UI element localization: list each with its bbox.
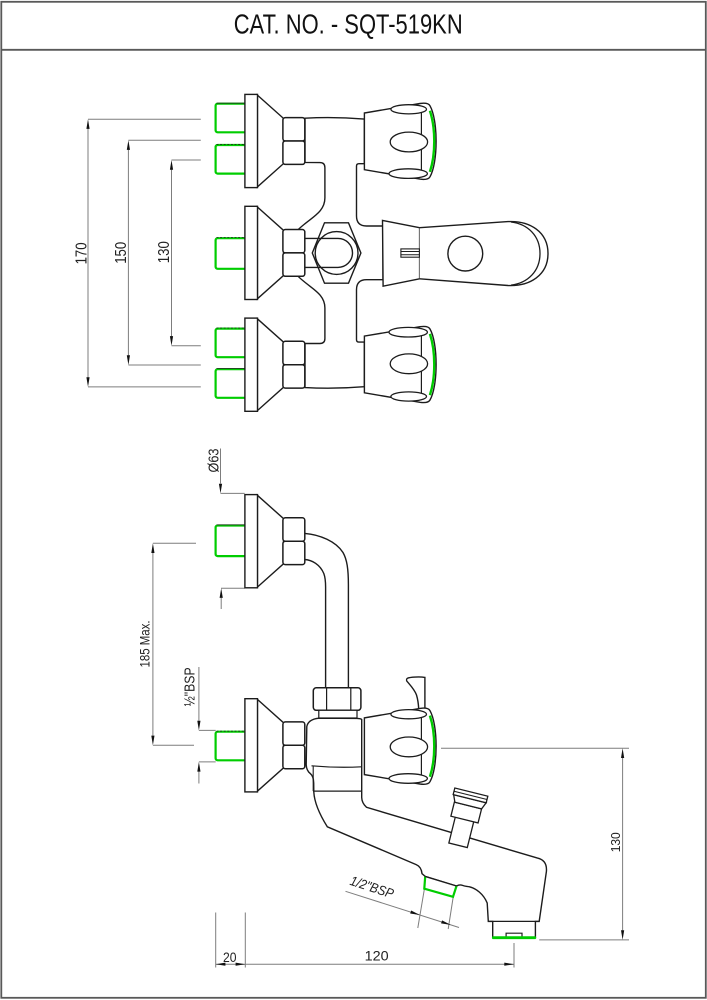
shower hose connector (tilted) bbox=[442, 788, 488, 849]
arrows slanted dim bbox=[410, 910, 420, 916]
dimension 170 vertical line bbox=[88, 119, 201, 387]
svg-text:130: 130 bbox=[156, 241, 173, 263]
svg-text:CAT. NO. - SQT-519KN: CAT. NO. - SQT-519KN bbox=[234, 9, 463, 40]
svg-text:150: 150 bbox=[113, 242, 130, 264]
wall flange F2 bbox=[245, 206, 305, 299]
dim 185 lines bbox=[152, 553, 154, 736]
svg-text:185 Max.: 185 Max. bbox=[138, 621, 154, 668]
shower outlet thread (green) bbox=[424, 876, 456, 896]
wall flange F1 bbox=[245, 94, 305, 187]
arrows half BSP bbox=[197, 721, 200, 731]
knob (side view) bbox=[364, 708, 436, 784]
inlet nipple A bbox=[216, 525, 247, 556]
center shaft bbox=[305, 238, 338, 267]
aerator green edge bbox=[493, 936, 535, 939]
inlet nipple N4 bbox=[216, 328, 247, 357]
svg-text:130: 130 bbox=[608, 832, 623, 852]
spout neck (plan) bbox=[383, 220, 420, 286]
arrows 130 bbox=[170, 160, 173, 170]
svg-text:170: 170 bbox=[73, 242, 90, 264]
nut neck bbox=[319, 710, 357, 718]
aerator shoulder line bbox=[488, 920, 539, 922]
title separator line bbox=[1, 49, 706, 51]
riser pipe bend bbox=[305, 533, 349, 687]
arrows 185 bbox=[151, 543, 154, 553]
inlet nipple B bbox=[216, 731, 247, 760]
arrows 130 bbox=[621, 748, 624, 758]
coupling nut bbox=[313, 688, 361, 711]
arrows for phi63 bbox=[219, 484, 222, 494]
body band lines bbox=[312, 766, 362, 767]
arrows 20 and 120 bbox=[216, 963, 226, 966]
spout end inner cap line bbox=[511, 222, 540, 285]
center tee hexagon bbox=[312, 223, 361, 283]
arrows 170 bbox=[86, 119, 89, 129]
dim 20 / 120 lines bbox=[215, 913, 217, 968]
arrows 150 bbox=[127, 140, 130, 150]
inlet nipple N5 bbox=[216, 369, 247, 398]
diverter lever bbox=[407, 677, 425, 709]
knob 2 (cold, plan) bbox=[364, 326, 436, 402]
wall flange F3 bbox=[245, 318, 305, 411]
center circle bbox=[315, 232, 358, 275]
dim phi63 leader bbox=[153, 449, 629, 968]
diverter slot detail bbox=[401, 249, 420, 257]
center nipple N3 bbox=[216, 238, 247, 269]
diverter knob circle (plan) bbox=[448, 236, 483, 271]
svg-text:½"BSP: ½"BSP bbox=[182, 667, 199, 706]
aerator notch bbox=[506, 933, 522, 937]
valve body and spout outline bbox=[306, 718, 546, 937]
dimension 150 lines bbox=[127, 150, 129, 356]
wall flange B bbox=[245, 699, 305, 792]
knob 1 (hot, plan) bbox=[364, 103, 436, 179]
spout arm (plan) with rounded end bbox=[420, 222, 548, 286]
inlet nipple N2 bbox=[216, 144, 247, 173]
svg-text:20: 20 bbox=[223, 950, 237, 965]
dim 130 lines bbox=[622, 758, 624, 931]
slanted dim lines at shower outlet bbox=[418, 889, 425, 928]
dimension 130 lines bbox=[171, 170, 173, 337]
inlet nipple N1 bbox=[216, 103, 247, 132]
wall flange A bbox=[245, 495, 305, 588]
svg-text:Ø63: Ø63 bbox=[206, 449, 222, 473]
dim half BSP lines bbox=[198, 667, 200, 721]
svg-text:120: 120 bbox=[365, 949, 389, 964]
mixer body (plan view) bbox=[296, 118, 383, 389]
